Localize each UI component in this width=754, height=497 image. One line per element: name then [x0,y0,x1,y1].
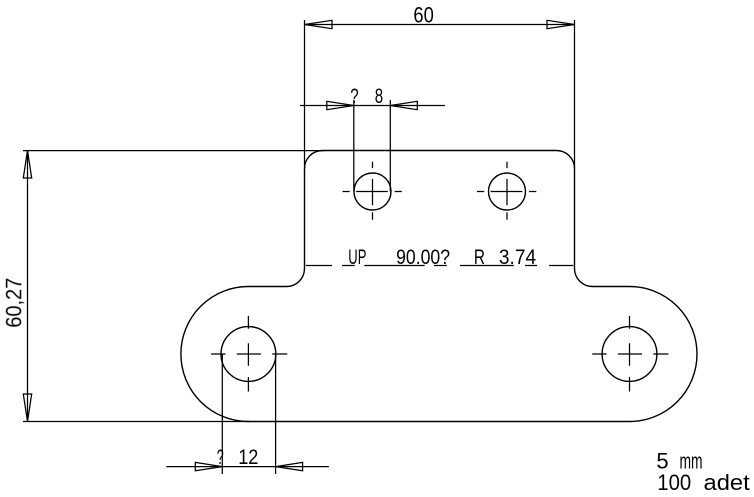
svg-text:adet: adet [704,470,750,495]
part outline [181,151,697,422]
svg-text:UP: UP [348,245,366,269]
svg-text:90.00?: 90.00? [396,245,450,269]
svg-text:12: 12 [238,445,258,469]
center mark hole top-left [343,162,402,220]
svg-text:?: ? [217,445,224,469]
svg-text:60,27: 60,27 [1,278,26,328]
center mark hole top-right [477,162,536,220]
center mark hole bottom-right [592,316,668,392]
dimension 60 top: dim line [305,24,575,26]
dimension dia12: arrow pointing left [276,462,303,470]
dimension 60 top: arrow left [305,20,333,28]
dimension dia8: arrow pointing right [327,101,354,109]
dimension dia12: dim line [166,466,329,468]
dimension dia12: extension lines [222,354,275,474]
hole bottom-left [221,327,276,382]
dimension dia8: arrow pointing left [390,101,417,109]
dimension dia8: extension lines [354,100,391,192]
hole bottom-right [602,327,657,382]
svg-text:?: ? [350,84,358,108]
dimension 60,27 left: arrow top [23,151,31,179]
svg-text:60: 60 [413,2,433,27]
svg-text:3.74: 3.74 [499,245,536,269]
dimension 60 top: extension lines [305,20,575,169]
dimension dia8: dim line [300,105,445,107]
bend line dashed [306,265,573,267]
svg-text:100: 100 [657,470,691,495]
hole top-right [489,173,526,210]
svg-text:8: 8 [375,84,383,108]
dimension dia12: arrow pointing right [195,462,222,470]
hole top-left [354,173,391,210]
dimension 60,27 left: extension lines [23,151,325,422]
dimension 60,27 left: dim line [27,151,29,422]
dimension 60,27 left: arrow bottom [23,394,31,422]
svg-text:R: R [474,245,485,269]
center mark hole bottom-left [211,316,287,392]
dimension 60 top: arrow right [547,20,575,28]
